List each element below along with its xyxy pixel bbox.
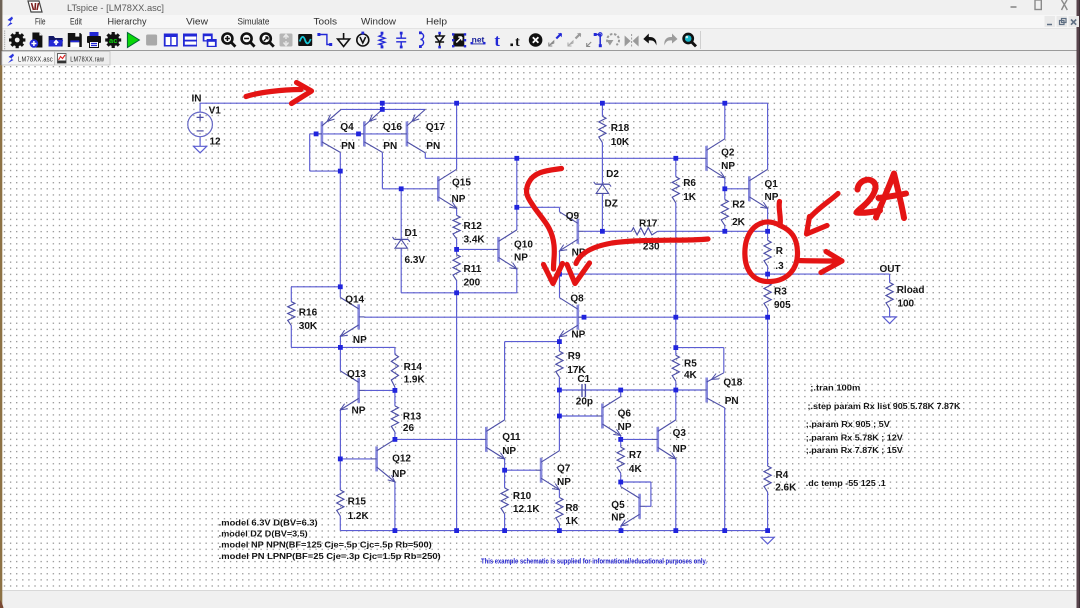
svg-text:D2: D2 [606,169,619,180]
svg-text:4K: 4K [629,464,643,475]
svg-text:20p: 20p [576,396,593,407]
svg-text:200: 200 [464,278,481,289]
svg-text:Q9: Q9 [566,211,580,222]
svg-text:R10: R10 [513,491,532,502]
svg-text:3.4K: 3.4K [464,235,486,246]
svg-text:LM78XX.raw: LM78XX.raw [70,54,104,63]
svg-text:R12: R12 [464,221,483,232]
svg-text:R3: R3 [774,287,787,298]
svg-text:;.param Rx 5.78K ; 12V: ;.param Rx 5.78K ; 12V [806,432,903,442]
svg-text:Q18: Q18 [723,378,742,389]
svg-text:12.1K: 12.1K [513,504,540,515]
svg-text:Window: Window [361,16,397,26]
svg-text:net: net [472,35,485,45]
svg-text:R13: R13 [403,412,422,423]
svg-text:.dc temp -55 125 .1: .dc temp -55 125 .1 [806,478,886,488]
svg-text:Simulate: Simulate [238,16,270,26]
svg-text:R6: R6 [683,178,696,189]
svg-text:PN: PN [341,141,355,152]
svg-text:R15: R15 [348,497,367,508]
svg-text:LTspice - [LM78XX.asc]: LTspice - [LM78XX.asc] [67,3,164,14]
svg-text:Q17: Q17 [426,122,445,133]
svg-text:;.param Rx 7.87K ; 15V: ;.param Rx 7.87K ; 15V [806,445,903,455]
svg-text:Q8: Q8 [570,294,584,305]
svg-text:t: t [515,35,520,50]
svg-text:NP: NP [392,469,406,480]
svg-text:R9: R9 [568,351,581,362]
svg-text:;.param Rx 905 ; 5V: ;.param Rx 905 ; 5V [806,419,890,429]
svg-text:R4: R4 [776,470,789,481]
svg-text:R18: R18 [611,123,630,134]
svg-text:View: View [186,16,209,26]
svg-text:.model 6.3V D(BV=6.3): .model 6.3V D(BV=6.3) [219,518,318,528]
svg-text:2K: 2K [732,217,746,228]
svg-text:Q13: Q13 [347,369,366,380]
svg-text:;.tran 100m: ;.tran 100m [810,383,860,393]
svg-text:DZ: DZ [605,199,618,210]
svg-text:R16: R16 [299,308,318,319]
svg-text:.3: .3 [775,261,784,272]
svg-text:26: 26 [403,423,415,434]
svg-text:NP: NP [353,335,367,346]
svg-text:;.step param Rx list 905 5.78K: ;.step param Rx list 905 5.78K 7.87K [808,401,962,411]
svg-text:Q14: Q14 [345,295,364,306]
svg-text:6.3V: 6.3V [405,255,426,266]
svg-text:NP: NP [352,406,366,417]
svg-text:R2: R2 [732,199,745,210]
svg-text:NP: NP [673,444,687,455]
svg-text:Rload: Rload [897,285,925,296]
svg-text:Help: Help [426,16,447,26]
svg-text:PN: PN [383,141,397,152]
svg-text:NP: NP [514,253,528,264]
svg-text:Q12: Q12 [392,453,411,464]
svg-text:12: 12 [210,137,222,148]
svg-text:.model DZ D(BV=3.5): .model DZ D(BV=3.5) [219,529,308,539]
svg-text:NP: NP [765,192,779,203]
svg-text:4K: 4K [684,370,698,381]
svg-text:10K: 10K [611,137,630,148]
svg-text:Q11: Q11 [502,432,521,443]
svg-text:NP: NP [502,446,516,457]
svg-text:Q5: Q5 [611,500,625,511]
svg-text:OUT: OUT [880,264,901,275]
svg-text:This example schematic is supp: This example schematic is supplied for i… [481,557,707,566]
svg-text:Q2: Q2 [721,147,735,158]
svg-text:R: R [776,246,784,257]
svg-text:Q1: Q1 [765,179,779,190]
svg-text:Tools: Tools [314,16,338,26]
svg-text:Q6: Q6 [618,409,632,420]
svg-text:V1: V1 [209,106,222,117]
svg-text:2.6K: 2.6K [775,483,797,494]
svg-text:R7: R7 [629,450,642,461]
svg-text:NP: NP [557,477,571,488]
svg-text:.model NP NPN(BF=125 Cje=.5p C: .model NP NPN(BF=125 Cje=.5p Cjc=.5p Rb=… [219,540,432,550]
svg-text:1K: 1K [683,192,697,203]
svg-text:t: t [494,31,500,50]
svg-text:.model PN LPNP(BF=25 Cje=.3p C: .model PN LPNP(BF=25 Cje=.3p Cjc=1.5p Rb… [219,551,441,561]
svg-text:NP: NP [618,422,632,433]
svg-text:PN: PN [426,141,440,152]
svg-text:Q7: Q7 [557,464,571,475]
svg-text:NP: NP [611,513,625,524]
svg-text:ac: ac [109,36,117,45]
svg-text:Q10: Q10 [514,240,533,251]
svg-text:R11: R11 [464,264,482,275]
svg-text:LM78XX.asc: LM78XX.asc [18,54,53,63]
svg-text:Q4: Q4 [340,122,354,133]
svg-text:1.2K: 1.2K [348,511,370,522]
svg-text:R5: R5 [684,359,697,370]
svg-text:Hierarchy: Hierarchy [108,16,148,26]
svg-text:905: 905 [774,300,791,311]
svg-text:1.9K: 1.9K [404,375,426,386]
svg-text:30K: 30K [299,321,318,332]
svg-text:C1: C1 [577,374,590,385]
svg-text:R17: R17 [639,218,658,229]
svg-text:IN: IN [192,93,202,104]
svg-text:D1: D1 [405,228,418,239]
svg-text:R14: R14 [404,362,423,373]
svg-text:1K: 1K [565,516,579,527]
svg-text:PN: PN [725,396,739,407]
svg-text:Edit: Edit [70,16,82,26]
svg-text:NP: NP [452,194,466,205]
svg-text:Q16: Q16 [383,122,402,133]
svg-text:100: 100 [897,298,914,309]
svg-text:File: File [35,16,46,26]
svg-text:R8: R8 [565,503,578,514]
svg-text:Q15: Q15 [452,178,471,189]
svg-text:NP: NP [721,161,735,172]
svg-text:Q3: Q3 [673,428,687,439]
svg-text:NP: NP [571,330,585,341]
